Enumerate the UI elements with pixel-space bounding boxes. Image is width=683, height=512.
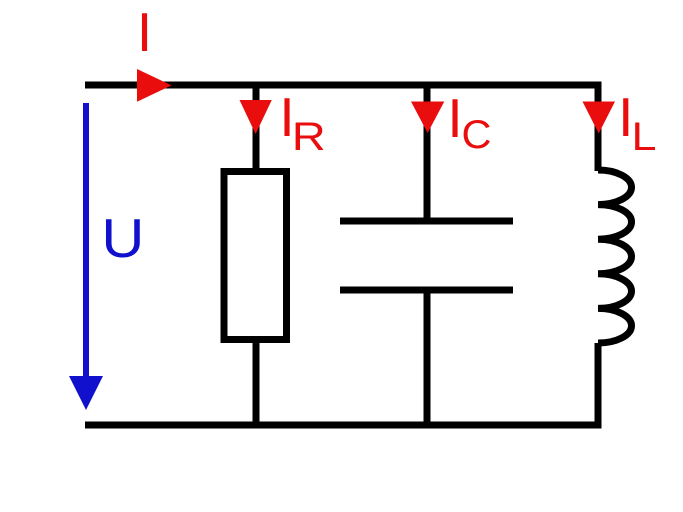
capacitor C bottom plate	[340, 287, 513, 294]
svg-text:R: R	[292, 115, 326, 159]
wire right vertical top segment	[595, 85, 602, 171]
voltage arrow U head	[69, 376, 103, 410]
wire bottom horizontal	[85, 422, 602, 429]
arrow IC head	[411, 102, 444, 134]
resistor R body	[224, 172, 287, 340]
wire top horizontal	[85, 82, 602, 89]
inductor L coil	[598, 170, 632, 343]
wire capacitor branch bottom	[424, 290, 431, 425]
svg-text:L: L	[632, 115, 657, 159]
svg-text:I: I	[137, 1, 152, 63]
svg-text:I: I	[447, 87, 462, 149]
svg-text:C: C	[462, 113, 492, 157]
voltage arrow U shaft	[83, 103, 89, 380]
current arrow I head	[137, 69, 172, 102]
arrow IL head	[583, 102, 616, 134]
wire resistor branch bottom	[253, 339, 260, 425]
svg-text:U: U	[101, 207, 144, 269]
wire capacitor branch top	[424, 85, 431, 221]
capacitor C top plate	[340, 218, 513, 225]
wire resistor branch top	[253, 85, 260, 172]
wire right vertical bottom segment	[595, 343, 602, 425]
arrow IR head	[240, 100, 272, 134]
